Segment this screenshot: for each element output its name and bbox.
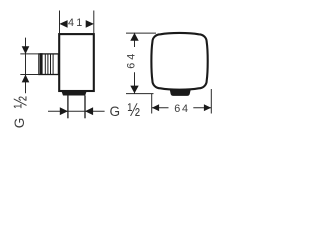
dim 64 vertical: bottom extension line (126, 93, 154, 95)
svg-text:41: 41 (68, 17, 84, 29)
left nipple: end chamfer bar (40, 53, 43, 75)
bottom outlet: shoulder (62, 91, 87, 95)
dim G1/2 bottom: dimension line (48, 110, 105, 112)
svg-text:64: 64 (174, 103, 190, 115)
dim G1/2 left: lower arrow (up) (22, 75, 30, 83)
left view: body rectangle (side view) (59, 34, 94, 91)
left nipple: thread line 4 (52, 54, 54, 75)
dim G1/2 left: upper arrow (down) (22, 46, 30, 54)
dim G1/2 bottom: left arrow (points right) (60, 107, 68, 115)
left nipple: thread line 1 (44, 54, 46, 75)
svg-text:½: ½ (10, 96, 31, 109)
svg-text:½: ½ (128, 100, 141, 121)
dim 64 vertical: top extension line (126, 32, 156, 34)
bottom outlet: tube right wall (84, 96, 86, 119)
dim 64 bottom: right arrow (204, 104, 211, 111)
dim 64 bottom: dimension line right segment (193, 107, 211, 109)
right view: escutcheon squircle (151, 33, 207, 90)
dim 64 bottom: left arrow (152, 104, 159, 111)
left nipple: thread line 3 (50, 54, 52, 75)
dim 41: left extension line (59, 11, 61, 34)
dim G1/2 left: dimension line (25, 38, 27, 94)
dim 64 vertical: bottom arrow (down) (130, 86, 138, 94)
dim 64 bottom: dimension line left segment (152, 107, 169, 109)
svg-text:G: G (12, 118, 27, 129)
bottom outlet: tube left wall (67, 96, 69, 119)
svg-text:G: G (110, 104, 121, 119)
dim 64 bottom: left extension line (151, 94, 153, 114)
svg-text:64: 64 (126, 51, 138, 69)
left nipple: thread line 2 (47, 54, 49, 75)
dim G1/2 left: upper extension line (20, 53, 39, 55)
dim 64 vertical: top arrow (up) (130, 33, 138, 41)
dim G1/2 left: lower extension line (20, 74, 39, 76)
dim 64 vertical: dimension line (134, 33, 136, 47)
dim 41: left arrow (59, 20, 67, 28)
dim 41: right extension line (93, 11, 95, 34)
right view: bottom outlet tab (170, 89, 191, 96)
left nipple: threaded stub outline (39, 54, 59, 75)
dim 41: right arrow (86, 20, 94, 28)
dim 64 bottom: right extension line (210, 89, 212, 114)
dim G1/2 bottom: right arrow (points left) (85, 107, 93, 115)
